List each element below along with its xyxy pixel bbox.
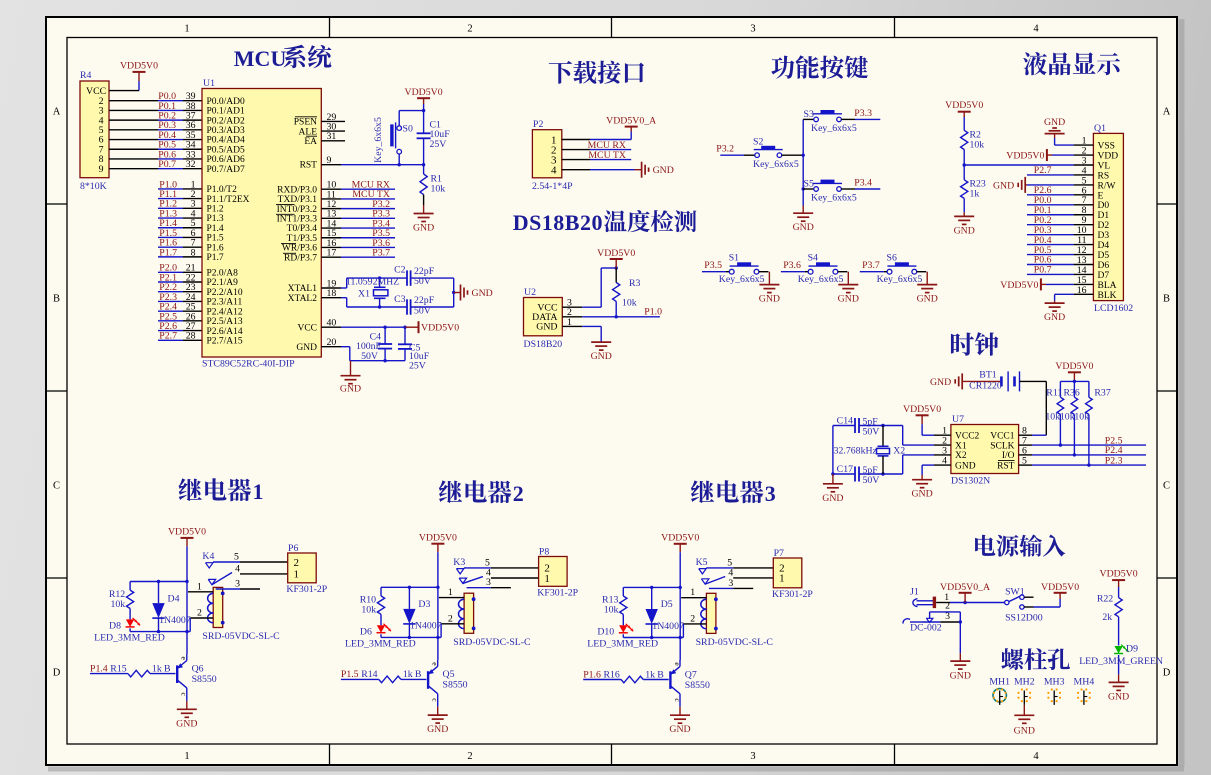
key S5 (803, 179, 857, 204)
svg-text:P0.7: P0.7 (1034, 265, 1052, 276)
svg-text:Q7: Q7 (685, 669, 697, 680)
wire LCD pin13 P0.6 (1027, 264, 1074, 266)
wire contact pin4 (486, 568, 539, 579)
wire P0.2 (R4 pin4 to U1 pin37) (109, 119, 202, 121)
svg-text:P6: P6 (288, 543, 298, 554)
diode D3 (403, 587, 441, 637)
svg-text:P1.6: P1.6 (207, 243, 224, 253)
svg-text:B: B (164, 663, 171, 674)
svg-text:P1.5: P1.5 (207, 234, 224, 244)
net label P2.1 (159, 272, 177, 283)
LCD Q1 box (1093, 123, 1133, 314)
svg-text:D10: D10 (597, 627, 614, 638)
ground (MH2) (1014, 705, 1035, 737)
capacitor C17 (837, 464, 880, 486)
pin number 38 (186, 101, 196, 112)
wire J1 pin1 (936, 592, 1004, 622)
wire P1.5 (to U1 pin6) (158, 236, 202, 238)
wire GND pin 20 (321, 337, 350, 361)
wire P3.6 pin 16 (321, 238, 395, 249)
svg-text:KF301-2P: KF301-2P (772, 589, 813, 600)
wire P1.0 (to U1 pin1) (158, 188, 202, 190)
svg-text:P2: P2 (533, 119, 543, 130)
wire LCD pin7 P0.0 (1027, 204, 1074, 206)
wire LCD pin6 P2.6 (1027, 194, 1074, 196)
svg-text:SCLK: SCLK (990, 441, 1014, 451)
wire LCD VSS to GND (1055, 134, 1074, 146)
wire S4 to ground (838, 272, 849, 285)
svg-text:WR/P3.6: WR/P3.6 (282, 244, 317, 254)
relay contact K4 (202, 551, 232, 585)
svg-text:Key_6x6x5: Key_6x6x5 (877, 274, 923, 285)
resistor R3 (613, 268, 641, 317)
svg-text:E: E (1098, 191, 1104, 201)
net label P1.4 (relay1) (90, 663, 108, 674)
svg-text:B: B (53, 294, 60, 305)
svg-text:1: 1 (544, 573, 550, 585)
connector J1 DC jack (903, 587, 942, 634)
pin number 4 (191, 208, 196, 219)
svg-text:1N4007: 1N4007 (410, 621, 442, 632)
key S3 (803, 109, 857, 134)
wire U7 VCC2 pin1 (922, 415, 951, 436)
svg-text:P8: P8 (539, 546, 549, 557)
svg-text:10k: 10k (622, 298, 637, 309)
svg-text:3: 3 (750, 751, 755, 762)
svg-text:31: 31 (327, 131, 337, 142)
pin number 25 (186, 302, 196, 313)
net label MCU TX (P2) (588, 150, 626, 161)
pin number 23 (186, 282, 196, 293)
svg-text:1: 1 (197, 581, 202, 592)
wire P2.7 (to U1 pin28) (158, 339, 202, 341)
net label P3.7 (372, 247, 390, 258)
svg-text:GND: GND (340, 384, 361, 395)
wire VCC pin 40 (321, 318, 418, 329)
svg-text:SRD-05VDC-SL-C: SRD-05VDC-SL-C (453, 637, 530, 648)
svg-text:LED_3MM_RED: LED_3MM_RED (345, 638, 416, 649)
svg-text:K4: K4 (202, 551, 214, 562)
relay contact K5 (696, 557, 726, 584)
svg-text:D6: D6 (360, 626, 372, 637)
svg-text:EA: EA (304, 137, 317, 147)
ground (R1) (413, 205, 434, 234)
net label P2.7 (159, 331, 177, 342)
svg-text:XTAL2: XTAL2 (288, 294, 318, 304)
power VDD5V0 (S0/C1) (405, 87, 443, 110)
LED D10 (587, 624, 658, 650)
svg-text:R4: R4 (80, 70, 92, 81)
connector P2 box (532, 119, 573, 192)
wire U7 X1 pin2 (903, 426, 951, 447)
power VDD5V0 (VCC) (419, 321, 460, 333)
svg-text:B: B (415, 669, 422, 680)
svg-text:PSEN: PSEN (294, 118, 317, 128)
wire contact pin3 (467, 577, 511, 588)
net label P0.6 (LCD) (1034, 255, 1052, 266)
net label P1.2 (159, 199, 177, 210)
power VDD5V0 (LCD BLA) (1000, 278, 1041, 290)
svg-text:S5: S5 (804, 179, 814, 190)
svg-text:1: 1 (184, 751, 189, 762)
svg-text:CR1220: CR1220 (969, 380, 1002, 391)
svg-text:C2: C2 (394, 265, 406, 276)
wire VDD to S0/C1 junction (399, 109, 425, 112)
net label P0.7 (LCD) (1034, 265, 1052, 276)
net label P2.2 (159, 282, 177, 293)
wire P2.1 (to U1 pin22) (158, 281, 202, 283)
svg-text:VDD5V0: VDD5V0 (1000, 280, 1038, 291)
svg-text:3: 3 (728, 578, 733, 589)
capacitor C3 (394, 294, 435, 317)
svg-text:K5: K5 (696, 557, 708, 568)
ground (U2) (591, 342, 612, 362)
svg-text:J1: J1 (910, 587, 919, 598)
svg-text:50V: 50V (863, 427, 880, 438)
net label P0.1 (158, 101, 176, 112)
svg-text:P2.6/A14: P2.6/A14 (207, 327, 243, 337)
wire X2 bottom rail (833, 472, 903, 475)
net label P2.5 (1105, 435, 1123, 446)
net label P3.3 (372, 209, 390, 220)
wire LCD pin9 P0.2 (1027, 224, 1074, 226)
svg-text:1: 1 (294, 569, 300, 581)
relay coil K0 (202, 587, 279, 642)
svg-text:VSS: VSS (1098, 142, 1115, 152)
title 下载接口 (549, 61, 644, 84)
net label P3.4 (854, 177, 872, 188)
net label P1.6 (relay3) (583, 669, 601, 680)
wire SW1 to VDD5V0 (1024, 593, 1060, 607)
capacitor C14 (837, 416, 880, 438)
svg-text:P3.6: P3.6 (783, 260, 801, 271)
svg-text:D6: D6 (1098, 261, 1110, 271)
LCD pin stubs and numbers (1074, 136, 1094, 296)
wire coil pin1 (188, 581, 213, 592)
svg-text:K3: K3 (453, 557, 465, 568)
svg-text:8: 8 (191, 247, 196, 258)
MCU U1 box (202, 78, 321, 370)
wire S2 to center (782, 154, 804, 156)
key S0 (373, 111, 413, 165)
wire S6 to ground (917, 272, 928, 285)
net label MCU RX (352, 180, 390, 191)
resistor R37 (1074, 388, 1110, 466)
svg-text:9: 9 (327, 155, 332, 166)
svg-text:4: 4 (1033, 751, 1039, 762)
net label P0.7 (158, 159, 176, 170)
net label P3.4 (372, 218, 390, 229)
ground (D9) (1108, 674, 1129, 702)
ground (U7) (911, 480, 932, 500)
wire LCD BLA (1041, 283, 1074, 285)
wire P2.5 (to U1 pin26) (158, 320, 202, 322)
LED D8 (94, 618, 165, 644)
svg-text:1: 1 (448, 587, 453, 598)
wire P3.0 pin 10 (321, 180, 395, 191)
svg-text:1k: 1k (403, 669, 413, 680)
svg-text:GND: GND (591, 351, 612, 362)
svg-text:4: 4 (942, 456, 947, 467)
svg-text:A: A (1163, 107, 1171, 118)
wire U7 RST pin5 to P2.3 (1019, 456, 1146, 467)
diode D5 (646, 587, 684, 637)
mounting hole MH4 (1074, 676, 1095, 705)
net label P1.0 (159, 179, 177, 190)
svg-text:GND: GND (911, 489, 932, 500)
svg-text:1: 1 (184, 24, 189, 35)
ground (relay1) (176, 701, 197, 729)
net label P3.5 (704, 260, 722, 271)
svg-text:P0.2/AD2: P0.2/AD2 (207, 116, 246, 126)
key S2 (753, 136, 799, 170)
svg-text:Key_6x6x5: Key_6x6x5 (373, 117, 384, 163)
title MCU系统 (234, 45, 332, 71)
svg-text:VDD5V0: VDD5V0 (945, 100, 983, 111)
svg-text:GND: GND (838, 294, 859, 305)
ground (S6) (917, 285, 938, 305)
svg-text:GND: GND (822, 493, 843, 504)
svg-text:GND: GND (653, 165, 674, 176)
wire battery left (962, 380, 1000, 382)
svg-text:SRD-05VDC-SL-C: SRD-05VDC-SL-C (696, 637, 773, 648)
pin number 22 (186, 272, 196, 283)
power VDD5V0_A (J1) (940, 582, 990, 602)
power VDD5V0 (clock) (1055, 361, 1093, 383)
wire P0.1 (R4 pin3 to U1 pin38) (109, 109, 202, 111)
wire coil pin2 (190, 608, 213, 632)
mounting hole MH2 (1014, 676, 1035, 705)
pin PSEN 29 (321, 112, 345, 123)
svg-text:S2: S2 (753, 136, 763, 147)
svg-text:32.768kHz: 32.768kHz (834, 445, 878, 456)
key S6 (877, 252, 923, 285)
svg-text:MH3: MH3 (1044, 676, 1065, 687)
wire U7 X2 pin3 (903, 445, 951, 474)
net label P3.5 (372, 228, 390, 239)
transistor Q5 (428, 660, 468, 707)
svg-text:5: 5 (1022, 456, 1027, 467)
svg-text:DS1302N: DS1302N (951, 476, 990, 487)
svg-text:GND: GND (413, 223, 434, 234)
svg-text:S3: S3 (804, 109, 814, 120)
svg-text:D2: D2 (1098, 221, 1110, 231)
pin number 2 (191, 189, 196, 200)
net label P2.4 (159, 302, 177, 313)
connector P8 box (537, 546, 578, 598)
wire LCD VDD (1047, 154, 1074, 156)
wire keys center vertical (802, 119, 805, 205)
pin number 27 (186, 321, 196, 332)
net label P3.2 (372, 199, 390, 210)
wire RST pin 9 (321, 155, 425, 166)
transistor Q7 (670, 660, 710, 707)
crystal X2 (834, 426, 906, 475)
pin number 5 (191, 218, 196, 229)
wire coil pin2 (441, 613, 464, 637)
net label P0.5 (LCD) (1034, 245, 1052, 256)
resistor R11 (1045, 388, 1063, 445)
svg-text:P2.5/A13: P2.5/A13 (207, 317, 243, 327)
wire pull-up rail (1060, 381, 1089, 397)
wire contact pin5 (706, 558, 773, 569)
svg-text:GND: GND (954, 226, 975, 237)
wire U2 VCC pin3 (562, 266, 618, 308)
svg-text:B: B (657, 669, 664, 680)
wire relay3 top rail (623, 586, 680, 589)
svg-text:P0.1/AD1: P0.1/AD1 (207, 107, 246, 117)
svg-text:VDD5V0: VDD5V0 (419, 533, 457, 544)
title 继电器2 (439, 480, 524, 506)
title 继电器3 (691, 480, 776, 506)
svg-text:D9: D9 (1126, 644, 1138, 655)
resistor R1 (420, 165, 445, 205)
svg-text:P1.7: P1.7 (207, 253, 224, 263)
svg-text:GND: GND (930, 377, 951, 388)
svg-text:2: 2 (448, 613, 453, 624)
svg-text:R22: R22 (1097, 593, 1113, 604)
power VDD5V0 (relay1) (168, 527, 206, 547)
relay contact K3 (453, 557, 483, 583)
svg-text:SW1: SW1 (1005, 587, 1025, 598)
ground (relay3) (669, 707, 690, 735)
title 继电器1 (178, 478, 263, 504)
svg-text:R36: R36 (1064, 388, 1080, 399)
svg-text:D1: D1 (1098, 211, 1110, 221)
svg-text:VDD5V0: VDD5V0 (1100, 569, 1138, 580)
transistor Q6 (177, 654, 217, 701)
svg-text:LED_3MM_RED: LED_3MM_RED (94, 633, 165, 644)
wire P0.3 (R4 pin5 to U1 pin36) (109, 129, 202, 131)
wire U7 I/O pin6 to P2.4 (1019, 445, 1146, 456)
net label P0.3 (158, 120, 176, 131)
svg-text:10k: 10k (1045, 412, 1060, 423)
net label P3.6 (783, 260, 801, 271)
ground (J1) (950, 661, 971, 681)
net label P3.7 (862, 260, 880, 271)
net label P0.2 (158, 111, 176, 122)
svg-text:STC89C52RC-40I-DIP: STC89C52RC-40I-DIP (202, 359, 295, 370)
wire P1.2 (to U1 pin3) (158, 207, 202, 209)
svg-text:C: C (53, 481, 60, 492)
svg-text:P2.3: P2.3 (1105, 455, 1123, 466)
ground (battery) (930, 373, 962, 389)
svg-text:KF301-2P: KF301-2P (537, 587, 578, 598)
pin number 3 (191, 199, 196, 210)
wire XTAL2 pin 18 (321, 288, 346, 307)
svg-text:INT1/P3.3: INT1/P3.3 (277, 215, 318, 225)
svg-text:1: 1 (253, 479, 264, 504)
svg-text:RST: RST (997, 461, 1015, 471)
net label P1.4 (159, 218, 177, 229)
net label P1.7 (159, 247, 177, 258)
net label P2.6 (LCD) (1034, 185, 1052, 196)
svg-text:D: D (1163, 668, 1171, 679)
net label P2.6 (159, 321, 177, 332)
svg-text:GND: GND (472, 288, 493, 299)
ground (X2) (822, 474, 843, 504)
svg-text:X1: X1 (358, 289, 370, 300)
svg-text:1k: 1k (152, 663, 162, 674)
svg-text:Key_6x6x5: Key_6x6x5 (798, 274, 844, 285)
svg-text:LED_3MM_RED: LED_3MM_RED (587, 639, 658, 650)
svg-text:P1.0: P1.0 (644, 307, 662, 318)
svg-text:GND: GND (176, 718, 197, 729)
wire contact pin3 (216, 578, 260, 589)
wire P2 pin1 to VDD5V0_A (562, 127, 631, 140)
pin number 39 (186, 91, 196, 102)
net label P3.3 (854, 108, 872, 119)
svg-text:3: 3 (235, 578, 240, 589)
pin ALE 30 (321, 122, 345, 133)
svg-text:2.54-1*4P: 2.54-1*4P (532, 181, 573, 192)
wire contact pin5 (464, 558, 539, 569)
svg-text:2k: 2k (1102, 612, 1112, 623)
svg-text:MCU: MCU (234, 46, 287, 71)
power VDD5V0 (R4) (120, 60, 158, 90)
pin number 1 (191, 179, 196, 190)
key S1 (719, 252, 765, 285)
wire relay3 bottom rail (623, 636, 683, 639)
svg-text:Q1: Q1 (1094, 123, 1106, 134)
svg-text:P2.7: P2.7 (1034, 165, 1052, 176)
ground (LCD VSS) (1044, 117, 1065, 134)
net label P2.0 (159, 263, 177, 274)
wire P0.6 (R4 pin8 to U1 pin33) (109, 158, 202, 160)
power VDD5V0 (SW1) (1041, 582, 1079, 593)
svg-text:D3: D3 (418, 599, 430, 610)
net label P1.1 (159, 189, 177, 200)
wire P1.3 (to U1 pin4) (158, 217, 202, 219)
wire crystal top rail (347, 276, 454, 279)
svg-text:2: 2 (690, 613, 695, 624)
svg-text:R37: R37 (1094, 388, 1110, 399)
svg-text:VDD5V0: VDD5V0 (1055, 361, 1093, 372)
wire S5 to P3.4 (841, 188, 880, 190)
svg-text:P2.3/A11: P2.3/A11 (207, 298, 243, 308)
svg-text:U2: U2 (524, 287, 536, 298)
net label MCU RX (P2) (588, 140, 626, 151)
svg-text:BLK: BLK (1098, 291, 1117, 301)
resistor R12 (109, 582, 134, 620)
svg-text:GND: GND (669, 724, 690, 735)
ground (R23) (954, 212, 975, 236)
pin number 24 (186, 292, 196, 303)
svg-text:1: 1 (690, 587, 695, 598)
mounting hole MH1 (989, 676, 1010, 705)
svg-text:VCC2: VCC2 (955, 431, 980, 441)
svg-text:1: 1 (567, 317, 572, 328)
resistor R15 (90, 663, 176, 677)
wire P0.0 (R4 pin2 to U1 pin39) (109, 100, 202, 102)
svg-text:25V: 25V (409, 361, 426, 372)
svg-text:VDD5V0: VDD5V0 (661, 533, 699, 544)
title DS18B20温度检测 (513, 210, 697, 235)
svg-text:RS: RS (1098, 171, 1110, 181)
svg-text:4: 4 (551, 164, 557, 176)
power VDD5V0 (U2) (597, 248, 635, 268)
svg-text:P2.4/A12: P2.4/A12 (207, 307, 243, 317)
net label P1.3 (159, 208, 177, 219)
svg-text:Q6: Q6 (192, 663, 204, 674)
ground (P2) (642, 162, 674, 178)
wire U2 DATA pin2 to P1.0 (562, 307, 660, 318)
title 时钟 (951, 332, 999, 356)
wire X2 top rail (833, 424, 903, 427)
svg-text:GND: GND (917, 294, 938, 305)
wire P1.7 (to U1 pin8) (158, 256, 202, 258)
wire LCD pin11 P0.4 (1027, 244, 1074, 246)
